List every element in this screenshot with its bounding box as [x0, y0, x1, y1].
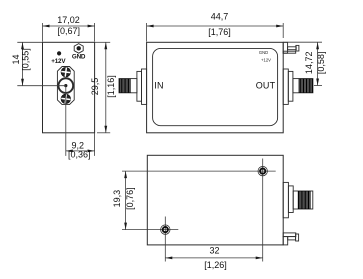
svg-text:14,72: 14,72	[304, 52, 314, 75]
svg-text:17,02: 17,02	[57, 15, 80, 25]
extension line left corner up	[146, 23, 148, 42]
arrowhead up	[104, 42, 107, 49]
bottom view connector threads	[298, 191, 310, 209]
extension / leader line at connector center	[17, 85, 66, 87]
svg-text:IN: IN	[154, 81, 163, 91]
mounting hole B screw ring	[163, 227, 168, 232]
OUT connector nut section	[288, 71, 293, 101]
extension line left corner up	[42, 23, 44, 42]
dimension line 17,02	[43, 25, 95, 27]
OUT connector flange plate (right side)	[283, 69, 288, 104]
svg-text:29,5: 29,5	[90, 78, 100, 96]
svg-text:[0,36]: [0,36]	[68, 149, 91, 159]
dimension line 32	[165, 257, 262, 259]
extension line at OUT connector axis	[314, 85, 322, 87]
top screw cross slot	[61, 67, 71, 77]
arrowhead up	[316, 42, 319, 49]
dimension line 44,7	[147, 25, 284, 27]
svg-text:GND: GND	[72, 54, 86, 61]
leader line from connector center down	[65, 86, 67, 156]
mounting hole A screw ring	[260, 169, 265, 174]
svg-text:[1,16]: [1,16]	[106, 75, 116, 98]
IN connector flange plate (left side)	[142, 69, 147, 104]
center pin dot	[64, 84, 67, 87]
IN connector threads	[120, 79, 130, 93]
svg-text:[0,76]: [0,76]	[125, 187, 135, 210]
dimension line 9,2	[66, 150, 95, 152]
GND terminal dot	[77, 46, 81, 50]
+12V terminal dot	[57, 51, 61, 55]
bottom view connector barrel	[293, 191, 313, 209]
arrowhead down	[316, 79, 319, 86]
bottom view connector nut section	[288, 186, 293, 213]
arrowhead down	[21, 79, 24, 86]
bottom view connector flange plate	[283, 182, 288, 217]
mounting hole A crosshair vertical	[262, 159, 264, 262]
svg-text:32: 32	[209, 245, 219, 255]
svg-text:OUT: OUT	[256, 80, 276, 90]
lid outline (rounded inner rectangle)	[153, 48, 278, 125]
OUT connector barrel	[293, 79, 313, 93]
bottom screw cross slot	[61, 94, 71, 104]
mounting hole B outer circle	[161, 225, 170, 234]
dimension line 29,5	[105, 42, 107, 133]
enclosure body outline (front view)	[147, 42, 284, 133]
RF connector shell outline (end view)	[57, 67, 74, 105]
arrowhead left	[165, 257, 172, 260]
feedthrough base (bottom view)	[283, 237, 288, 245]
mounting hole B crosshair horizontal	[122, 229, 178, 231]
enclosure body outline (bottom view)	[147, 155, 283, 245]
svg-text:[0,55]: [0,55]	[20, 48, 30, 71]
extension line top (box top extended right)	[283, 41, 322, 43]
dimension line 19,3	[125, 171, 127, 230]
arrowhead down	[104, 126, 107, 133]
feedthrough lug (bottom view)	[283, 233, 296, 237]
svg-text:[1,26]: [1,26]	[204, 260, 227, 270]
arrowhead up	[21, 42, 24, 49]
feedthrough pin cap (bottom view)	[296, 234, 299, 241]
extension line right corner up	[282, 23, 284, 38]
IN connector nut section	[137, 71, 142, 101]
feedthrough pin cap	[296, 45, 299, 51]
feedthrough lug lower	[283, 51, 296, 53]
top mounting screw head	[61, 67, 70, 76]
extension line right corner up	[94, 23, 96, 42]
feedthrough lug lower edge	[288, 237, 296, 240]
GND feedthrough hex	[74, 44, 83, 54]
feedthrough pin base (front view, top right)	[283, 42, 287, 53]
arrowhead up	[124, 171, 127, 178]
mounting hole B crosshair vertical	[164, 217, 166, 262]
svg-text:[1,76]: [1,76]	[208, 27, 231, 37]
arrowhead down	[124, 223, 127, 230]
arrowhead right	[276, 25, 283, 28]
svg-text:+12V: +12V	[261, 57, 271, 62]
svg-text:GND: GND	[259, 50, 268, 55]
svg-text:[0,58]: [0,58]	[316, 52, 326, 75]
connector center conductor circle	[58, 78, 73, 93]
enclosure body outline (end view)	[43, 42, 95, 133]
feedthrough lug upper	[288, 47, 297, 50]
dimension line 14	[22, 42, 24, 85]
mounting hole A outer circle	[258, 166, 267, 175]
arrowhead right	[88, 25, 95, 28]
arrowhead left	[147, 25, 154, 28]
extension line top (box top extended left)	[17, 41, 42, 43]
svg-text:44,7: 44,7	[211, 11, 229, 21]
svg-text:19,3: 19,3	[112, 190, 122, 208]
arrowhead right	[256, 257, 263, 260]
bottom mounting screw head	[61, 94, 70, 103]
OUT connector threads	[299, 79, 312, 93]
arrowhead left	[43, 25, 50, 28]
extension line box right edge down	[94, 133, 96, 156]
svg-text:+12V: +12V	[51, 58, 66, 65]
extension line top (box top extended right)	[95, 41, 111, 43]
arrowhead right	[88, 150, 95, 153]
svg-text:[0,67]: [0,67]	[58, 26, 81, 36]
IN connector barrel	[119, 79, 137, 93]
dimension line 14,72	[317, 42, 319, 85]
mounting hole A crosshair horizontal	[122, 170, 276, 172]
arrowhead left	[66, 150, 73, 153]
extension line bottom (box bottom extended right)	[97, 132, 110, 134]
